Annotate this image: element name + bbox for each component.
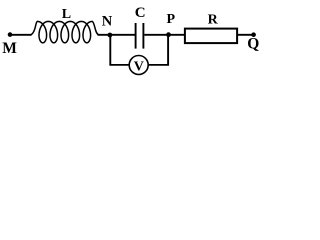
capacitor C right plate	[142, 23, 144, 49]
svg-text:N: N	[102, 14, 113, 30]
voltmeter branch: bottom wire left	[109, 64, 129, 66]
svg-text:M: M	[2, 40, 17, 57]
inductor L coil	[31, 21, 100, 42]
svg-text:Q: Q	[247, 35, 259, 52]
terminal Q dot	[251, 32, 256, 37]
svg-text:C: C	[135, 5, 146, 21]
node P dot	[166, 32, 171, 37]
wire resistor to Q	[238, 34, 254, 36]
wire M to inductor	[10, 34, 32, 36]
capacitor C left plate	[135, 23, 137, 49]
svg-text:P: P	[167, 12, 176, 27]
voltmeter branch: wire up to P	[167, 35, 169, 66]
node N dot	[108, 33, 113, 38]
terminal M dot	[8, 32, 13, 37]
svg-text:L: L	[62, 7, 71, 22]
svg-text:V: V	[134, 59, 144, 74]
voltmeter branch: bottom wire right	[148, 64, 169, 66]
voltmeter V circle	[129, 56, 148, 75]
wire capacitor to node P	[144, 34, 185, 36]
svg-text:R: R	[208, 13, 219, 28]
resistor R box	[185, 29, 237, 43]
wire inductor to node N	[98, 34, 136, 36]
voltmeter branch: wire down from N	[109, 35, 111, 65]
